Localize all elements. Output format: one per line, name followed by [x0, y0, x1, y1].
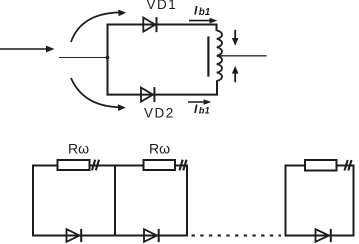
- input arrow: [0, 46, 55, 53]
- ladder: bottom rail cell1-2: [32, 235, 188, 237]
- ladder: cell2 right vertical wire: [186, 165, 188, 237]
- curved arrow upper: [71, 10, 126, 42]
- node junction: [106, 56, 110, 60]
- diode D2: [144, 229, 159, 242]
- diode D1: [67, 229, 82, 242]
- svg-text:Rω: Rω: [149, 141, 170, 157]
- diode D3: [316, 229, 331, 242]
- diode VD1: [143, 17, 156, 32]
- diode VD2: [141, 87, 154, 102]
- dotted continuation wire: [192, 235, 282, 237]
- label Ib1 bottom: [194, 102, 210, 116]
- svg-text:Rω: Rω: [68, 141, 89, 157]
- secondary lead wire: [219, 55, 267, 57]
- break marks after R1: [92, 160, 99, 171]
- ladder: left vertical wire: [32, 165, 34, 237]
- flux arrow up: [232, 66, 239, 82]
- wire right vertical bottom segment: [216, 81, 218, 96]
- wire right vertical top segment: [216, 24, 218, 32]
- wire left vertical: [107, 24, 109, 96]
- current arrow Ib1 bottom: [188, 99, 211, 105]
- resistor R2: [144, 160, 176, 170]
- resistor R1: [58, 160, 90, 170]
- resistor R3: [305, 160, 337, 171]
- flux arrow down: [232, 30, 239, 46]
- ladder: middle vertical wire: [114, 165, 116, 237]
- transformer core bar: [207, 36, 209, 76]
- label Ib1 top: [194, 3, 210, 18]
- svg-text:b1: b1: [199, 7, 210, 18]
- svg-text:b1: b1: [199, 105, 210, 116]
- ladder: last cell left vertical wire: [285, 165, 287, 237]
- svg-text:VD1: VD1: [147, 0, 178, 12]
- break marks after R3: [345, 160, 352, 171]
- wire bottom: [107, 94, 219, 96]
- wire top: [107, 24, 217, 26]
- ladder: last cell top rail: [285, 165, 354, 167]
- inductor winding L1: [217, 31, 222, 81]
- ladder: last cell right vertical wire: [353, 165, 355, 237]
- curved arrow lower: [71, 78, 126, 111]
- ladder: top rail cell1-2: [32, 165, 187, 167]
- svg-text:VD2: VD2: [144, 106, 175, 121]
- current arrow Ib1 top: [189, 18, 217, 24]
- wire node link: [59, 57, 108, 59]
- break marks after R2: [180, 160, 187, 171]
- ladder: last cell bottom rail: [285, 235, 355, 237]
